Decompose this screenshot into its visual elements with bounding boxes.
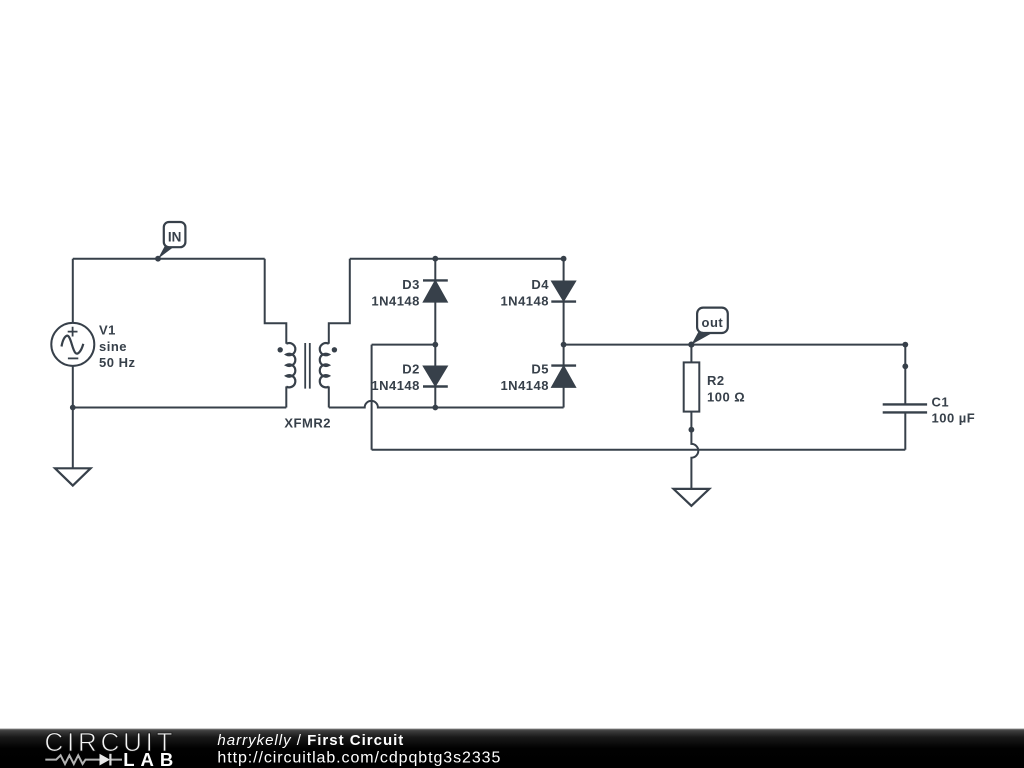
svg-text:D4: D4 xyxy=(531,277,549,292)
svg-text:1N4148: 1N4148 xyxy=(500,378,549,393)
svg-text:R2: R2 xyxy=(707,373,725,388)
svg-text:V1: V1 xyxy=(99,322,116,337)
node C1 top corner dot xyxy=(902,342,908,348)
svg-text:D5: D5 xyxy=(531,362,549,377)
wire mid-left vertical down xyxy=(371,345,373,450)
node D4 top junction xyxy=(561,256,567,262)
wire IN net: top horizontal to transformer primary xyxy=(73,258,265,260)
wire IN net: V1 top vertical xyxy=(72,259,74,323)
wire mid-left horizontal xyxy=(372,344,436,346)
flag IN label xyxy=(158,222,185,259)
svg-text:1N4148: 1N4148 xyxy=(371,293,420,308)
label V1 value xyxy=(99,322,135,370)
diode D2 xyxy=(371,345,447,408)
node D4/D5 mid junction xyxy=(561,342,567,348)
footer bar xyxy=(0,729,1024,768)
svg-text:http://circuitlab.com/cdpqbtg3: http://circuitlab.com/cdpqbtg3s2335 xyxy=(217,750,501,767)
wire V1 bottom stub xyxy=(72,366,74,408)
svg-text:LAB: LAB xyxy=(123,749,179,768)
svg-text:harrykelly / First Circuit: harrykelly / First Circuit xyxy=(217,732,404,749)
wire V1 ground lead xyxy=(72,408,74,469)
node IN junction dot xyxy=(155,256,161,262)
node D3/D2 mid junction xyxy=(432,342,438,348)
primary polarity dot xyxy=(278,347,283,352)
node R2 bottom junction xyxy=(689,427,695,433)
wire bottom-right riser to D5 xyxy=(563,387,565,408)
svg-text:out: out xyxy=(702,315,724,330)
diode D5 xyxy=(500,345,576,393)
svg-text:100 Ω: 100 Ω xyxy=(707,389,745,404)
transformer XFMR2 xyxy=(265,259,350,431)
svg-text:D3: D3 xyxy=(402,277,420,292)
wire R2 ground lead with hop xyxy=(691,430,698,489)
ground symbol at R2 xyxy=(674,489,710,506)
capacitor C1 xyxy=(883,345,976,450)
node D2 bottom junction xyxy=(432,405,438,411)
diode D3 xyxy=(371,259,447,345)
svg-text:100 µF: 100 µF xyxy=(932,411,976,426)
svg-text:1N4148: 1N4148 xyxy=(500,293,549,308)
ground symbol at V1 xyxy=(55,468,91,485)
wire bottom horizontal net xyxy=(372,449,906,451)
node out junction dot xyxy=(688,342,694,348)
flag out label xyxy=(691,308,727,345)
wire primary bottom lead xyxy=(285,386,287,407)
wire secondary top lead xyxy=(329,259,350,344)
wire secondary bottom lead xyxy=(328,386,330,407)
secondary winding xyxy=(320,343,329,387)
wire out net horizontal xyxy=(564,344,906,346)
wire primary top lead xyxy=(265,259,287,344)
wire secondary bottom horizontal with hop xyxy=(329,401,564,408)
logo resistor-diode squiggle xyxy=(45,755,122,764)
transformer core xyxy=(305,343,310,389)
secondary polarity dot xyxy=(332,347,337,352)
wire secondary top horizontal xyxy=(350,258,564,260)
node D3 top junction xyxy=(432,256,438,262)
voltage source V1 xyxy=(51,323,94,366)
svg-text:D2: D2 xyxy=(402,362,420,377)
wire bottom-left horizontal to primary xyxy=(73,407,286,409)
svg-text:1N4148: 1N4148 xyxy=(371,378,420,393)
svg-text:XFMR2: XFMR2 xyxy=(284,415,331,430)
svg-text:50 Hz: 50 Hz xyxy=(99,355,135,370)
svg-text:sine: sine xyxy=(99,339,127,354)
node V1 bottom junction xyxy=(70,405,76,411)
svg-text:IN: IN xyxy=(168,230,182,245)
node C1 terminal dot xyxy=(902,363,908,369)
diode D4 xyxy=(500,259,576,345)
resistor R2 xyxy=(684,345,746,430)
svg-text:C1: C1 xyxy=(932,394,950,409)
primary winding xyxy=(286,343,295,387)
